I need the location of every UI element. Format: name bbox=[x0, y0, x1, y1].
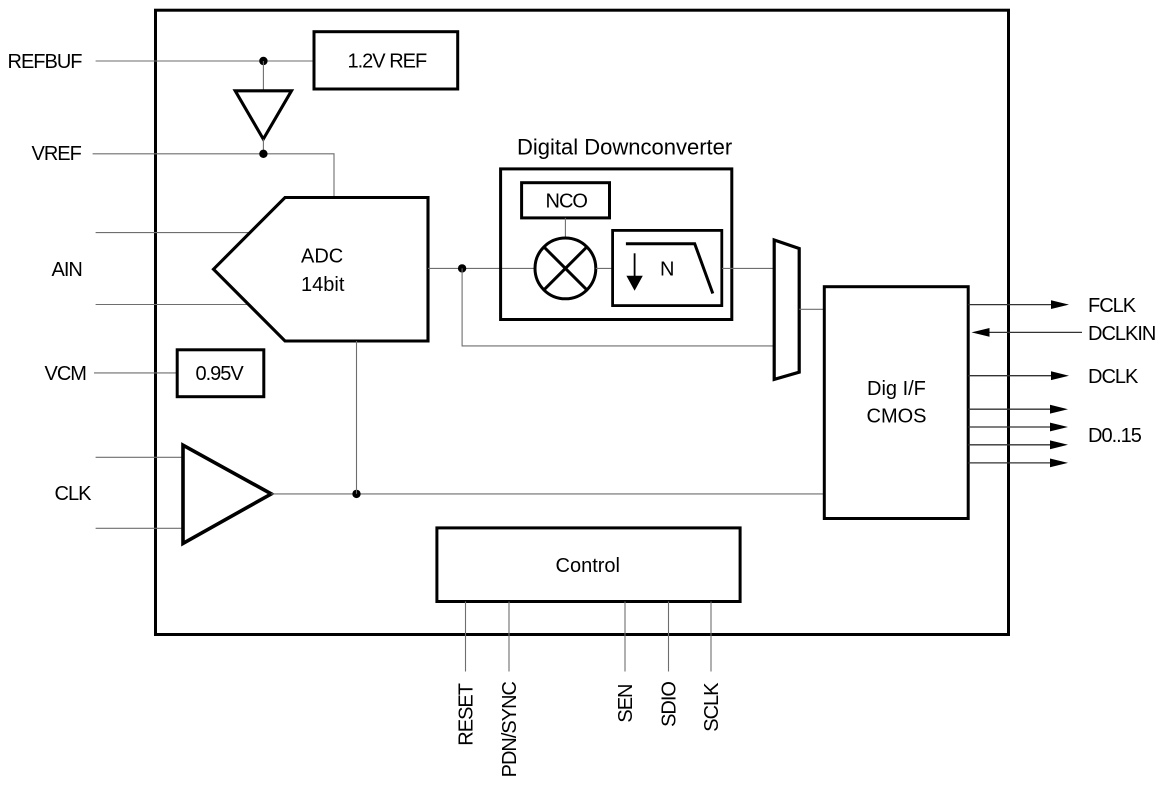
wire VREF bbox=[93, 154, 334, 198]
node junction ADC output bbox=[458, 264, 466, 272]
node junction REFBUF/buffer bbox=[259, 57, 267, 65]
svg-text:CLK: CLK bbox=[55, 483, 93, 505]
wire data bit output D0 with arrowhead bbox=[968, 408, 1051, 410]
svg-text:D0..15: D0..15 bbox=[1088, 425, 1142, 447]
node junction clock/ADC bbox=[352, 490, 360, 498]
wire CLK negative input bbox=[96, 527, 183, 529]
ADC 14bit converter block (pentagon) bbox=[214, 198, 429, 342]
wire data bit output with arrowhead bbox=[968, 444, 1051, 446]
wire REFBUF to 1.2V REF box bbox=[96, 60, 314, 62]
wire SCLK pin bbox=[710, 602, 712, 672]
svg-text:SEN: SEN bbox=[615, 685, 637, 723]
svg-text:Digital Downconverter: Digital Downconverter bbox=[517, 135, 732, 160]
wire ADC output bbox=[428, 267, 535, 269]
svg-text:DCLK: DCLK bbox=[1088, 366, 1139, 388]
svg-text:SDIO: SDIO bbox=[659, 682, 681, 727]
svg-text:RESET: RESET bbox=[456, 683, 478, 745]
wire data bit output with arrowhead bbox=[968, 426, 1051, 428]
svg-text:14bit: 14bit bbox=[301, 274, 345, 296]
svg-text:DCLKIN: DCLKIN bbox=[1088, 323, 1155, 345]
svg-text:Dig I/F: Dig I/F bbox=[867, 378, 926, 400]
wire mux output to Dig I/F bbox=[799, 308, 824, 310]
svg-text:N: N bbox=[660, 259, 674, 281]
wire buffer output to VREF node bbox=[262, 139, 264, 154]
buffer amplifier (reference buffer, pointing down) bbox=[235, 91, 291, 139]
wire DCLKIN input with arrowhead bbox=[989, 331, 1082, 333]
filter response curve bbox=[626, 244, 713, 294]
mixer (multiplier, circle with X) bbox=[535, 238, 596, 299]
svg-text:Control: Control bbox=[556, 555, 620, 577]
wire AIN negative input bbox=[96, 304, 250, 306]
wire filter to mux bbox=[722, 267, 774, 269]
node junction VREF/buffer output bbox=[259, 150, 267, 158]
svg-text:NCO: NCO bbox=[546, 191, 588, 213]
decimation filter block N bbox=[613, 230, 722, 305]
wire DCLK output with arrowhead bbox=[968, 375, 1052, 377]
Dig I/F CMOS block bbox=[824, 287, 968, 519]
wire data bit output D15 with arrowhead bbox=[968, 462, 1051, 464]
svg-text:ADC: ADC bbox=[301, 246, 343, 268]
decimation down arrow bbox=[634, 253, 636, 277]
box NCO bbox=[522, 183, 610, 218]
svg-text:SCLK: SCLK bbox=[701, 682, 723, 732]
svg-text:REFBUF: REFBUF bbox=[8, 51, 83, 73]
wire NCO to mixer bbox=[564, 218, 566, 238]
wire mixer to decimation filter bbox=[596, 267, 613, 269]
wire FCLK output with arrowhead bbox=[968, 304, 1052, 306]
wire junction to buffer input bbox=[262, 61, 264, 91]
clock buffer amplifier (pointing right) bbox=[183, 445, 271, 543]
wire AIN positive input bbox=[96, 232, 251, 234]
wire PDN/SYNC pin bbox=[508, 602, 510, 672]
svg-text:PDN/SYNC: PDN/SYNC bbox=[499, 681, 521, 777]
wire clock to ADC bbox=[356, 341, 358, 494]
wire RESET pin bbox=[465, 602, 467, 672]
chip outer boundary bbox=[156, 10, 1009, 634]
wire SEN pin bbox=[624, 602, 626, 672]
svg-text:FCLK: FCLK bbox=[1088, 295, 1137, 317]
svg-text:CMOS: CMOS bbox=[867, 406, 927, 428]
wire VCM bbox=[94, 372, 177, 374]
svg-text:1.2V REF: 1.2V REF bbox=[348, 51, 427, 73]
wire DDC bypass path bbox=[462, 268, 774, 346]
Digital Downconverter block bbox=[501, 169, 732, 320]
output mux (trapezoid) bbox=[774, 240, 799, 379]
svg-text:VREF: VREF bbox=[32, 143, 82, 165]
wire SDIO pin bbox=[668, 602, 670, 672]
box 0.95V common-mode reference bbox=[177, 350, 264, 397]
svg-text:0.95V: 0.95V bbox=[196, 363, 245, 385]
Control block bbox=[437, 528, 740, 602]
box 1.2V REF bbox=[314, 32, 458, 89]
wire clock distribution bbox=[271, 493, 824, 495]
wire CLK positive input bbox=[96, 456, 183, 458]
svg-text:VCM: VCM bbox=[45, 363, 87, 385]
svg-text:AIN: AIN bbox=[52, 259, 82, 281]
